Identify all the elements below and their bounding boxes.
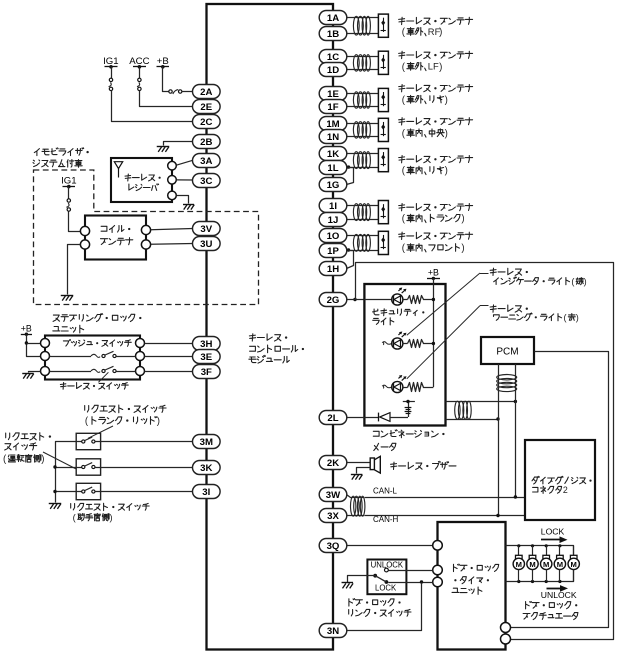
label: link switch label line2 <box>349 609 411 616</box>
svg-text:1G: 1G <box>327 180 340 191</box>
wire request switch SW3 to pin 3I <box>101 491 193 493</box>
svg-text:3U: 3U <box>200 239 212 250</box>
connector pin 1F <box>319 100 347 114</box>
svg-text:): ) <box>461 243 464 254</box>
arrows of keyless indicator light <box>398 332 406 338</box>
connector pin 1K <box>319 147 347 161</box>
wire pins 1C/1D to antenna coil <box>347 57 379 70</box>
label: antenna label 3 line1 <box>399 85 473 92</box>
antenna coil for 1I/1J <box>353 204 370 221</box>
wire steering lock ground terminal <box>29 372 41 373</box>
svg-text:IG1: IG1 <box>61 175 76 186</box>
connector pin 1P <box>319 244 347 258</box>
svg-text:+B: +B <box>21 323 32 333</box>
ground for steering lock <box>22 374 34 379</box>
label: antenna label 2 line1 <box>399 51 473 58</box>
label: request switch (passenger) label line1 <box>71 503 150 510</box>
svg-text:+B: +B <box>428 268 439 278</box>
door lock timer unit (box) <box>438 522 506 650</box>
antenna coil for 1O/1P <box>353 234 370 251</box>
svg-text:LOCK: LOCK <box>541 527 565 537</box>
label: security light label line2 <box>373 318 394 325</box>
receiver terminal circles <box>168 161 177 199</box>
request switch SW2 driver side contacts <box>76 463 100 469</box>
svg-text:): ) <box>576 313 579 323</box>
svg-text:3V: 3V <box>200 224 212 235</box>
antenna coil for 1K/1L <box>353 152 370 169</box>
svg-text:2A: 2A <box>200 87 212 98</box>
connector pin 3I <box>193 485 221 499</box>
svg-text:1K: 1K <box>327 149 339 160</box>
connector pin 1O <box>319 229 347 243</box>
link switch contacts and lever <box>373 568 388 584</box>
label: steering lock unit label line2 <box>53 325 84 333</box>
svg-text:3A: 3A <box>200 156 212 167</box>
connector pin 3E <box>193 350 221 364</box>
label: antenna label 6 line1 <box>399 204 473 211</box>
antenna coil for 1A/1B <box>353 16 370 35</box>
coil antenna (box) <box>85 216 146 260</box>
svg-text:3M: 3M <box>200 437 213 448</box>
svg-text:1N: 1N <box>327 132 339 143</box>
connector pin 3N <box>319 624 347 638</box>
label: antenna label 3 line2 <box>402 95 448 106</box>
coil antenna terminal circles <box>80 225 150 249</box>
svg-text:): ) <box>41 454 44 465</box>
wire PCM right to door-lock timer upper pin <box>511 352 609 628</box>
label: immobilizer note line1 <box>34 148 88 156</box>
svg-text:2G: 2G <box>327 295 340 306</box>
pointer line red label to warning LED <box>407 306 489 379</box>
wire IG1 to coil antenna upper terminal <box>69 212 81 232</box>
connector pin 1C <box>319 50 347 64</box>
security light LED with resistor <box>364 294 435 305</box>
wire pins 1K/1L to antenna coil <box>347 154 379 168</box>
svg-text:1A: 1A <box>327 13 339 24</box>
svg-text:3H: 3H <box>200 339 212 350</box>
connector pin 3V <box>193 222 221 236</box>
connector pin 1E <box>319 87 347 101</box>
door lock actuator motor M5 <box>568 546 579 582</box>
wire pin 2G loop to door-lock timer unit lower pin <box>353 263 613 640</box>
switch on IG1 feed <box>109 67 113 91</box>
antenna unit box (（車外、リヤ）) <box>378 88 388 111</box>
svg-text:M: M <box>543 560 549 569</box>
connector pin 3X <box>319 509 347 523</box>
label: coil antenna name line1 <box>101 226 130 233</box>
wire link switch LOCK to timer <box>388 580 432 583</box>
twisted pair coil below PCM <box>497 375 517 392</box>
svg-text:3E: 3E <box>200 352 212 363</box>
svg-text:M: M <box>557 560 563 569</box>
wire pin 2G to combination meter <box>347 299 365 301</box>
twisted pair coil meter-PCM <box>455 401 472 419</box>
svg-text:2E: 2E <box>200 102 212 113</box>
label: module name line2: control <box>250 345 304 353</box>
label: keyless warning label line1 <box>490 305 528 312</box>
keyless receiver (box) <box>111 158 172 202</box>
wire pin 2B to chassis ground <box>164 142 193 146</box>
pointer keyless switch label to switch <box>98 372 108 382</box>
keyless control module U1 (box) <box>207 4 334 650</box>
svg-text:1J: 1J <box>328 215 339 226</box>
arrows of keyless warning light <box>398 375 406 381</box>
wire steering lock to pin 3E <box>145 356 193 358</box>
switch on immobilizer IG1 feed <box>66 187 70 212</box>
svg-text:2C: 2C <box>200 117 212 128</box>
ground for request switches <box>49 504 62 509</box>
connector pin 1B <box>319 27 347 41</box>
svg-text:2: 2 <box>563 485 568 495</box>
PCM (box) <box>481 337 534 364</box>
svg-text:1M: 1M <box>326 119 339 130</box>
svg-text:3N: 3N <box>327 626 339 637</box>
svg-text:PCM: PCM <box>496 346 518 357</box>
label: link switch label line1 <box>349 599 401 607</box>
label: antenna label 5 line2 <box>402 166 448 177</box>
power source ACC <box>129 56 149 69</box>
svg-text:3X: 3X <box>327 511 339 522</box>
horizontal switch on +B feed to 2A <box>169 90 193 94</box>
label: request switch (driver) label line1 <box>6 433 51 441</box>
diode in meter on 2L line <box>347 413 408 422</box>
antenna symbol of keyless receiver <box>114 162 122 178</box>
svg-text:): ) <box>110 513 113 523</box>
connector pin 3K <box>193 461 221 475</box>
label: immobilizer note line2 <box>33 160 82 168</box>
antenna unit box (（車外、LF）) <box>378 51 388 74</box>
wire pins 1A/1B to antenna coil <box>347 18 379 34</box>
label: receiver name line2 <box>129 184 159 191</box>
connector pin 3C <box>193 174 221 188</box>
label: steering lock unit label line1 <box>53 314 141 322</box>
label: keyless warning label line2 <box>494 313 579 323</box>
connector pin 1J <box>319 213 347 227</box>
label: antenna label 7 line2 <box>402 243 465 254</box>
door lock actuator motor M1 <box>513 546 524 582</box>
label: keyless buzzer label <box>391 461 456 469</box>
svg-text:3Q: 3Q <box>327 541 340 552</box>
svg-text:1L: 1L <box>327 163 338 174</box>
svg-text:): ) <box>445 128 448 139</box>
svg-text:(: ( <box>571 277 574 287</box>
wire request switch SW1 to pin 3M <box>101 441 193 443</box>
steering lock terminal circles left <box>41 339 50 376</box>
wire pin 3N to LOCK line <box>347 583 422 631</box>
label: keyless indicator label line1 <box>490 268 528 275</box>
wire receiver to ground <box>177 196 189 204</box>
keyless switch (3F row) <box>50 366 136 372</box>
connector pin 1L <box>319 161 347 175</box>
svg-text:M: M <box>529 560 535 569</box>
wire receiver to pin 3A <box>176 160 192 165</box>
arrows of security light <box>398 288 406 294</box>
antenna unit box (（車内、中央）) <box>378 118 388 141</box>
label: combination meter label line1 <box>373 430 444 438</box>
svg-text:3I: 3I <box>202 487 210 498</box>
svg-text:2K: 2K <box>327 458 339 469</box>
connector pin 1G <box>319 178 347 192</box>
request switch SW3 passenger side contacts <box>76 487 100 493</box>
label: door lock actuator label line1 <box>526 601 578 609</box>
label: module name line3: module <box>249 355 289 363</box>
label: timer unit label line3 <box>452 587 482 594</box>
wire link switch UNLOCK to timer <box>388 570 432 572</box>
ground for link switch <box>342 583 354 589</box>
connector pin 3F <box>193 365 221 379</box>
door lock actuator motor M4 <box>554 546 565 582</box>
svg-text:(: ( <box>564 313 567 323</box>
label: request switch (trunk) label line2 <box>85 416 160 427</box>
ground for buzzer <box>351 475 363 480</box>
svg-text:LOCK: LOCK <box>375 583 397 592</box>
LOCK direction arrow <box>541 536 568 543</box>
svg-text:1F: 1F <box>327 102 338 113</box>
twisted pair coil on CAN at module <box>351 496 365 516</box>
wire ACC to pin 2E <box>140 91 193 107</box>
svg-text:3K: 3K <box>200 463 212 474</box>
connector pin 2K <box>319 456 347 470</box>
wire coil antenna to pin 3V <box>151 229 193 230</box>
request switch common bus to ground <box>53 442 76 503</box>
wire buzzer to ground <box>357 468 371 474</box>
svg-text:M: M <box>571 560 577 569</box>
label: receiver name line1 <box>125 174 161 181</box>
immobilizer system dashed enclosure <box>34 170 259 305</box>
label: module name line1: keyless <box>249 334 287 341</box>
timer unit left terminal circles <box>433 541 443 587</box>
connector pin 2C <box>193 115 221 129</box>
label: antenna label 6 line2 <box>402 214 465 225</box>
svg-text:1H: 1H <box>327 264 339 275</box>
svg-text:): ) <box>439 62 442 73</box>
wire meter to PCM CAN pair (bottom) <box>446 417 500 420</box>
actuator bottom bus (unlock side) <box>506 570 574 584</box>
label: timer unit label line1 <box>454 564 499 572</box>
wire pin 1P to pin 1H bracket <box>347 248 354 268</box>
svg-text:): ) <box>445 95 448 106</box>
connector pin 3W <box>319 488 347 502</box>
label: coil antenna name line2 <box>101 238 133 245</box>
pointer line green label to indicator LED <box>407 273 489 335</box>
svg-text:CAN-H: CAN-H <box>373 515 399 524</box>
svg-text:): ) <box>445 166 448 177</box>
connector pin 3U <box>193 237 221 251</box>
svg-text:2L: 2L <box>327 413 338 424</box>
steering lock unit (box) <box>45 336 140 380</box>
connector pin 3M <box>193 435 221 449</box>
connector pin 1M <box>319 117 347 131</box>
label: request switch (driver) label line3 <box>3 454 44 465</box>
connector pin 2L <box>319 411 347 425</box>
pointer trunk label to switch SW1 <box>88 426 113 438</box>
+B feed for meter lights <box>427 268 440 387</box>
label: diagnosis connector label line2 <box>533 485 568 495</box>
svg-text:): ) <box>439 27 442 38</box>
request switch SW3 passenger side (box) <box>76 483 100 499</box>
svg-text:): ) <box>157 416 160 427</box>
door lock actuator motor M3 <box>541 546 552 582</box>
switch on ACC feed <box>137 67 141 91</box>
wire +B down to 2A row <box>163 67 169 92</box>
connector pin 2G <box>319 293 347 307</box>
label: request switch (passenger) label line2 <box>73 513 113 523</box>
PCM CAN leads down <box>499 364 516 516</box>
ground for coil antenna <box>61 296 74 301</box>
keyless warning LED (red) with resistor <box>383 381 434 392</box>
label: antenna label 1 line2 <box>402 26 443 38</box>
keyless buzzer <box>370 456 380 473</box>
label: push switch label <box>63 340 131 347</box>
surge arrester element in meter <box>403 400 415 417</box>
wire steering lock to pin 3H <box>145 343 193 345</box>
antenna unit box (（車内、トランク）) <box>378 201 388 224</box>
antenna unit box (（車内、リヤ）) <box>378 149 388 172</box>
label: request switch (trunk) label line1 <box>85 405 166 413</box>
svg-text:1B: 1B <box>327 29 339 40</box>
antenna coil for 1C/1D <box>353 55 370 72</box>
wire pin 3X CAN-H <box>347 514 526 517</box>
steering lock terminal circles right <box>136 339 145 376</box>
label: antenna label 4 line1 <box>399 118 473 125</box>
wire pin 1L to pin 1G bracket <box>347 165 354 184</box>
power source IG1 <box>103 56 118 69</box>
request switch SW1 trunk lid contacts <box>76 437 100 443</box>
door lock actuator motor M2 <box>527 546 538 582</box>
wire link switch common to ground <box>348 576 376 583</box>
wire steering lock to pin 3F <box>145 371 193 373</box>
wire pins 1O/1P to antenna coil <box>347 236 379 251</box>
svg-text:UNLOCK: UNLOCK <box>541 590 577 600</box>
svg-text:1E: 1E <box>327 89 339 100</box>
timer unit right terminal circles <box>501 623 511 645</box>
connector pin 2B <box>193 135 221 149</box>
connector pin 3A <box>193 154 221 168</box>
svg-text:1I: 1I <box>329 201 337 212</box>
antenna unit box (（車外、RF）) <box>378 14 388 37</box>
label: combination meter label line2 <box>374 443 396 450</box>
svg-text:): ) <box>584 277 587 287</box>
connector pin 3Q <box>319 539 347 553</box>
antenna unit box (（車内、フロント）) <box>378 231 388 254</box>
wire pin 3Q to door-lock timer <box>347 545 433 547</box>
wire pins 1M/1N to antenna coil <box>347 124 379 137</box>
label: antenna label 5 line1 <box>399 156 473 163</box>
label: antenna label 1 line1 <box>399 17 473 24</box>
label: antenna label 7 line1 <box>399 232 473 239</box>
label: security light label line1 <box>373 309 425 316</box>
pointer driver label to switch SW2 <box>43 452 76 469</box>
diagnosis connector 2 (box) <box>525 440 595 520</box>
request switch SW1 trunk lid (box) <box>76 433 100 449</box>
svg-text:1C: 1C <box>327 52 339 63</box>
request switch SW2 driver side (box) <box>76 459 100 475</box>
label: keyless indicator label line2 <box>494 277 587 287</box>
wire pins 1E/1F to antenna coil <box>347 94 379 107</box>
push switch (3E row) <box>50 351 136 357</box>
connector pin 1A <box>319 11 347 25</box>
power source IG1 (immobilizer) <box>61 175 76 188</box>
label: door lock actuator label line2 <box>523 613 578 620</box>
label: antenna label 2 line2 <box>402 61 443 73</box>
power source +B (battery) <box>157 56 170 69</box>
wire pin 3W CAN-L <box>347 495 526 499</box>
connector pin 1D <box>319 63 347 77</box>
antenna coil for 1M/1N <box>353 122 370 139</box>
label: diagnosis connector label line1 <box>532 476 592 484</box>
svg-text:3F: 3F <box>201 367 212 378</box>
svg-text:1P: 1P <box>327 246 339 257</box>
svg-text:LF: LF <box>428 61 439 72</box>
label: request switch (driver) label line2 <box>5 443 37 450</box>
label: timer unit label line2 <box>454 577 489 584</box>
label: keyless switch label <box>60 383 128 390</box>
connector pin 2A <box>193 85 221 99</box>
wire request switch SW2 to pin 3K <box>101 467 193 469</box>
svg-text:1D: 1D <box>327 65 339 76</box>
wire pins 1I/1J to antenna coil <box>347 206 379 220</box>
svg-text:M: M <box>516 560 522 569</box>
wire +B to steering lock terminals <box>25 335 41 357</box>
ground for 2B <box>157 147 170 152</box>
wire coil antenna to ground <box>68 245 81 295</box>
wire receiver to pin 3C <box>176 179 192 181</box>
wire coil antenna to pin 3U <box>151 243 193 246</box>
power source +B (steering lock) <box>21 323 32 336</box>
connector pin 1N <box>319 130 347 144</box>
svg-text:1O: 1O <box>327 231 340 242</box>
actuator top bus (lock side) <box>506 544 574 555</box>
UNLOCK direction arrow <box>547 585 569 592</box>
ground for keyless receiver <box>183 205 194 210</box>
connector pin 3H <box>193 337 221 351</box>
connector pin 1I <box>319 199 347 213</box>
door lock link switch (box) <box>367 560 406 595</box>
wire meter to PCM CAN pair (top) <box>446 400 518 403</box>
svg-text:): ) <box>461 214 464 225</box>
svg-text:3W: 3W <box>326 490 341 501</box>
wire IG1 to pin 2C <box>112 91 193 122</box>
antenna coil for 1E/1F <box>353 92 370 108</box>
connector pin 2E <box>193 100 221 114</box>
connector pin 1H <box>319 262 347 276</box>
combination meter (box) <box>364 284 445 426</box>
svg-text:2B: 2B <box>200 137 212 148</box>
wire pin 2K to buzzer <box>347 462 370 464</box>
svg-text:CAN-L: CAN-L <box>373 486 398 495</box>
keyless indicator LED (green) with resistor <box>383 338 435 349</box>
label: antenna label 4 line2 <box>402 128 448 139</box>
svg-text:3C: 3C <box>200 176 212 187</box>
